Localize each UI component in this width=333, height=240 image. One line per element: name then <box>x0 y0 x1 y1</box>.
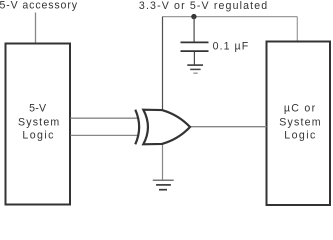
svg-text:µC or: µC or <box>284 102 316 114</box>
wire: XOR gate to ground <box>162 143 164 180</box>
svg-text:System: System <box>18 116 59 128</box>
svg-text:3.3-V or 5-V regulated: 3.3-V or 5-V regulated <box>139 0 267 12</box>
node: supply junction dot <box>191 14 196 19</box>
svg-text:Logic: Logic <box>22 130 54 142</box>
gate: XOR U1 input arc <box>135 110 139 145</box>
wire: XOR input B <box>71 134 140 136</box>
svg-text:0.1 µF: 0.1 µF <box>213 41 249 53</box>
ground: XOR gate ground <box>153 180 174 190</box>
capacitor C1 0.1 uF <box>181 42 209 51</box>
wire: XOR output to uC box <box>189 126 267 128</box>
wire: capacitor to ground <box>193 52 195 65</box>
svg-text:5-V accessory: 5-V accessory <box>0 0 78 11</box>
ground: capacitor ground <box>187 65 203 73</box>
svg-text:5-V: 5-V <box>29 102 47 114</box>
wire: supply rail horizontal <box>163 16 298 18</box>
wire: supply down to XOR gate Vcc <box>162 17 164 112</box>
svg-text:Logic: Logic <box>284 130 316 142</box>
wire: label to 5-V box <box>35 13 37 44</box>
box: 5-V System Logic <box>6 44 71 205</box>
svg-text:System: System <box>279 116 320 128</box>
gate: XOR U1 body <box>143 110 190 145</box>
wire: supply down to uC box <box>296 17 298 42</box>
wire: junction down to capacitor <box>193 17 195 42</box>
box: uC or System Logic <box>267 42 331 206</box>
wire: XOR input A <box>71 117 140 119</box>
